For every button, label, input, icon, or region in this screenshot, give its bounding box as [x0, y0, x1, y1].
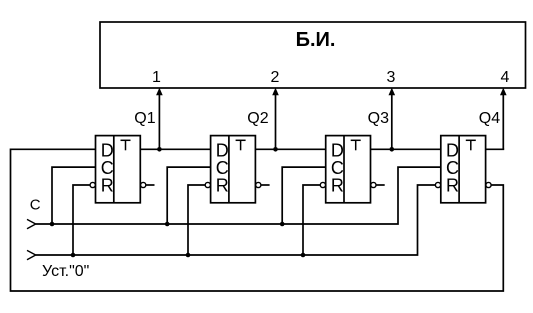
wire Q2 to display [272, 88, 279, 150]
wire C bus to DD1 C input [52, 167, 96, 224]
svg-text:4: 4 [501, 69, 510, 86]
input Ust.0 chevron [27, 250, 36, 259]
wire DD3 inverted output stub [376, 184, 385, 186]
flip-flop DD1 field divider [113, 136, 115, 203]
wire Q2 output to DD3 D input [255, 148, 325, 150]
junction R2 [186, 253, 191, 258]
flip-flop DD4 [435, 136, 491, 203]
junction R1 [71, 253, 76, 258]
junction C3 [280, 222, 285, 227]
R input inversion circle [90, 182, 95, 187]
svg-text:R: R [446, 176, 459, 196]
junction C2 [165, 222, 170, 227]
R input inversion circle [320, 182, 325, 187]
svg-text:Q3: Q3 [368, 110, 389, 127]
flip-flop DD3 [320, 136, 376, 203]
svg-text:Б.И.: Б.И. [296, 29, 336, 51]
svg-text:3: 3 [387, 69, 396, 86]
svg-text:Уст."0": Уст."0" [42, 263, 89, 280]
flip-flop DD1 [90, 136, 146, 203]
inverted output circle [141, 182, 146, 187]
wire DD1 inverted output stub [146, 184, 155, 186]
svg-text:R: R [101, 176, 114, 196]
junction Q2 [273, 147, 278, 152]
svg-text:R: R [331, 176, 344, 196]
wire Q1 output to DD2 D input [140, 148, 210, 150]
flip-flop DD2 [205, 136, 261, 203]
wire Q3 to display [389, 88, 396, 150]
wire R bus to DD3 R input [303, 185, 320, 255]
flip-flop DD1 body [96, 136, 141, 203]
wire C bus [36, 167, 441, 224]
wire Q1 to display [156, 88, 163, 150]
flip-flop DD4 field divider [458, 136, 460, 203]
display block B.I. box [100, 22, 526, 88]
inverted output circle [256, 182, 261, 187]
junction C1 [50, 222, 55, 227]
svg-text:1: 1 [152, 69, 161, 86]
svg-text:C: C [30, 197, 41, 214]
inverted output circle [486, 182, 491, 187]
flip-flop DD3 body [326, 136, 371, 203]
T trigger mark [236, 140, 246, 150]
flip-flop DD4 body [441, 136, 486, 203]
svg-text:R: R [216, 176, 229, 196]
wire DD2 inverted output stub [261, 184, 270, 186]
wire Q4 output corner [486, 148, 505, 150]
wire Q3 output to DD4 D input [371, 148, 441, 150]
svg-text:2: 2 [271, 69, 280, 86]
flip-flop DD2 body [211, 136, 256, 203]
T trigger mark [351, 140, 361, 150]
wire R bus to DD1 R input [73, 185, 90, 255]
wire Q4 to display [500, 88, 507, 150]
junction Q1 [157, 147, 162, 152]
wire C bus to DD2 C input [167, 167, 210, 224]
wire R bus to DD2 R input [188, 185, 205, 255]
flip-flop DD3 field divider [343, 136, 345, 203]
wire DD4 inverted output feedback to DD1 D input [11, 149, 504, 291]
junction Q3 [390, 147, 395, 152]
svg-text:Q2: Q2 [247, 110, 268, 127]
inverted output circle [371, 182, 376, 187]
svg-text:Q4: Q4 [479, 110, 500, 127]
wire R bus [36, 185, 436, 255]
input C chevron [27, 219, 36, 228]
svg-text:Q1: Q1 [134, 110, 155, 127]
wire C bus to DD3 C input [282, 167, 326, 224]
flip-flop DD2 field divider [228, 136, 230, 203]
T trigger mark [121, 140, 131, 150]
R input inversion circle [435, 182, 440, 187]
R input inversion circle [205, 182, 210, 187]
T trigger mark [466, 140, 476, 150]
junction R3 [301, 253, 306, 258]
